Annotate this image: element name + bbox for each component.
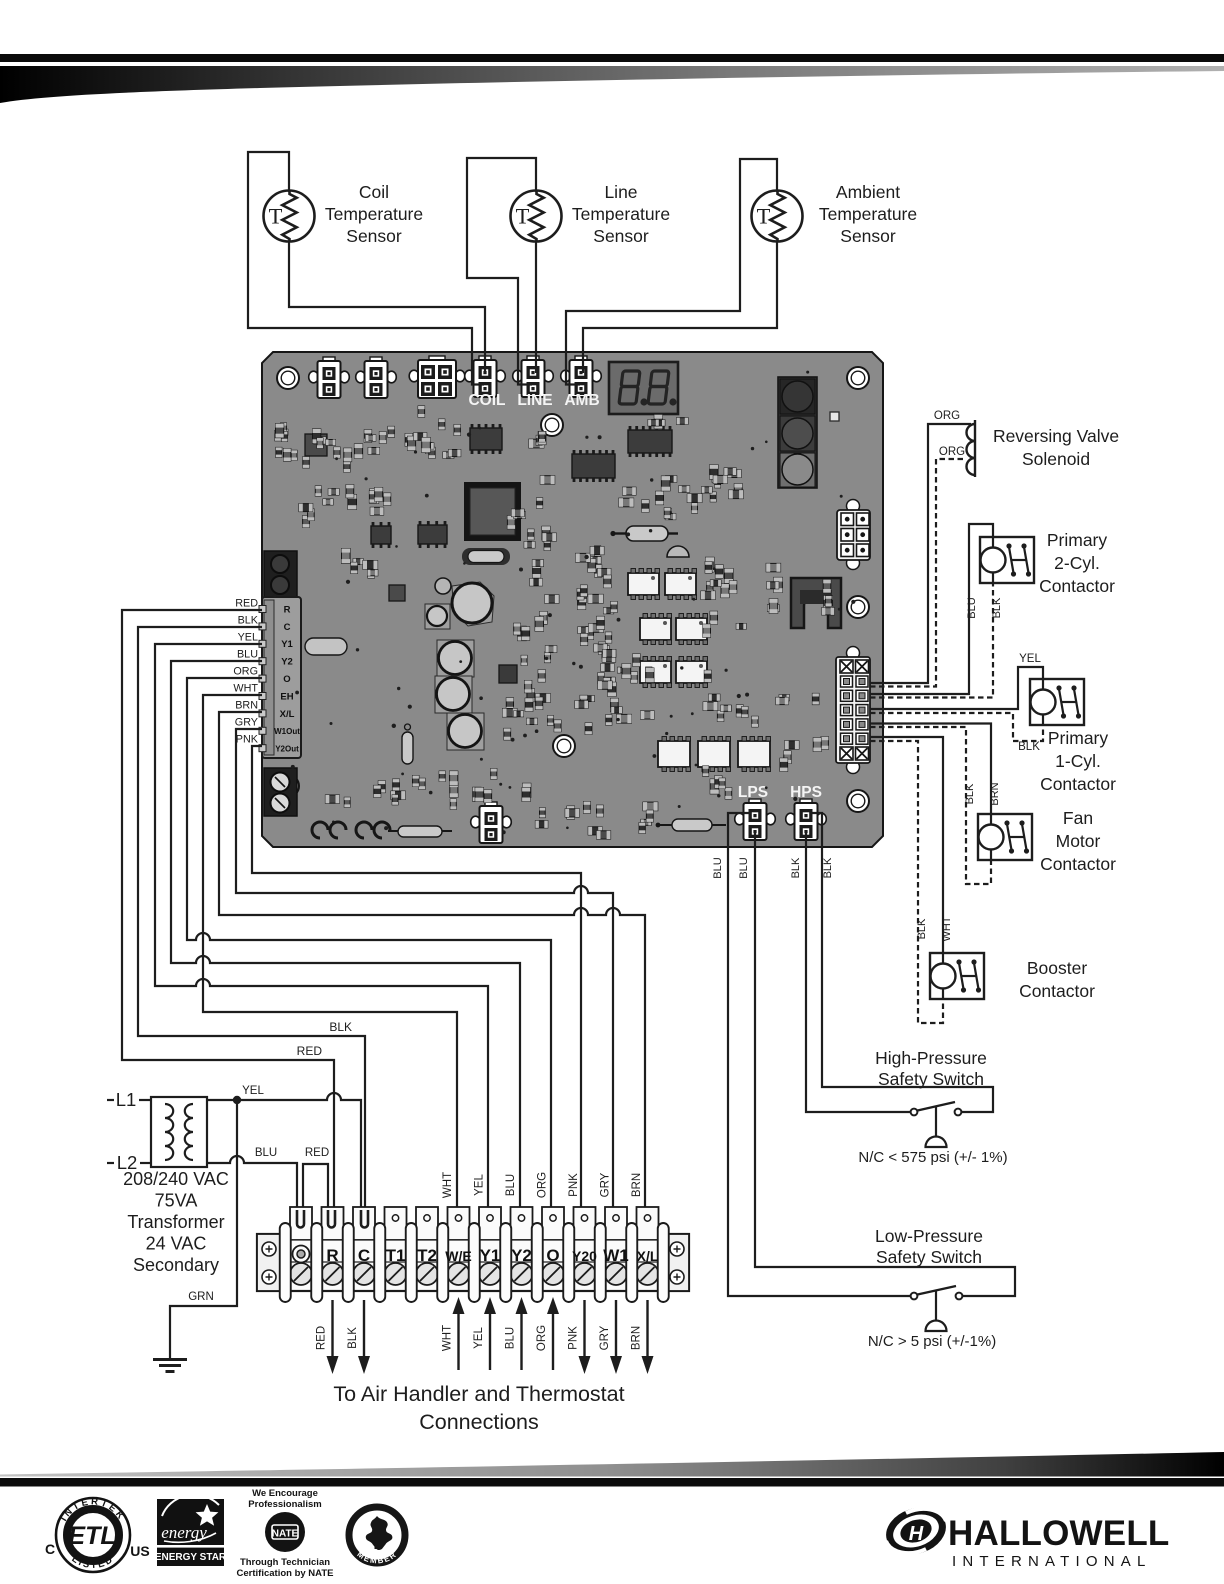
mounting hole 2 bbox=[847, 367, 869, 389]
svg-text:Contactor: Contactor bbox=[1039, 576, 1115, 596]
ground symbol bbox=[153, 1360, 187, 1372]
svg-text:T1: T1 bbox=[386, 1246, 406, 1265]
Hallowell International logo bbox=[884, 1505, 1169, 1570]
svg-text:YEL: YEL bbox=[1019, 653, 1041, 665]
diode D1 axial bbox=[626, 526, 668, 541]
terminal block TB3 bbox=[257, 1207, 689, 1302]
wire BLK HPS top pin bbox=[810, 813, 993, 1112]
svg-text:Through Technician: Through Technician bbox=[240, 1557, 330, 1568]
svg-text:T: T bbox=[269, 204, 283, 229]
svg-text:ORG: ORG bbox=[934, 410, 960, 422]
reversing valve solenoid coil bbox=[967, 420, 976, 477]
mounting hole 7 bbox=[277, 775, 299, 797]
svg-text:LINE: LINE bbox=[517, 392, 552, 409]
svg-text:HALLOWELL: HALLOWELL bbox=[948, 1514, 1169, 1553]
svg-text:Certification by NATE: Certification by NATE bbox=[237, 1568, 334, 1579]
LINE sensor connector bbox=[513, 356, 554, 397]
axial resistor bottom bbox=[398, 826, 442, 837]
wire BLU LPS top pin bbox=[728, 813, 910, 1296]
svg-text:BLU: BLU bbox=[505, 1174, 517, 1196]
svg-text:T: T bbox=[757, 204, 771, 229]
svg-text:PNK: PNK bbox=[568, 1173, 580, 1197]
opto-relay K5 bbox=[640, 657, 672, 688]
svg-text:C: C bbox=[358, 1246, 370, 1265]
line temperature sensor TH2 bbox=[511, 191, 562, 242]
board connector J4 (2x3 socket) bbox=[837, 500, 870, 570]
inductor L1 axial pill bbox=[402, 732, 413, 764]
svg-text:ORG: ORG bbox=[537, 1172, 549, 1198]
IC U8 small bbox=[389, 585, 405, 601]
svg-text:75VA: 75VA bbox=[155, 1191, 198, 1211]
opto-relay K8 bbox=[698, 737, 731, 772]
ETL listed mark bbox=[45, 1496, 150, 1572]
wire GRY from header to terminal block bbox=[236, 729, 613, 1218]
svg-text:High-Pressure: High-Pressure bbox=[875, 1048, 987, 1068]
svg-text:Contactor: Contactor bbox=[1040, 774, 1116, 794]
svg-text:INTERNATIONAL: INTERNATIONAL bbox=[952, 1553, 1152, 1570]
IC U3 bbox=[572, 450, 615, 482]
mounting hole 4 bbox=[847, 596, 869, 618]
svg-text:RED: RED bbox=[316, 1326, 328, 1350]
svg-text:COIL: COIL bbox=[468, 392, 505, 409]
svg-text:Sensor: Sensor bbox=[840, 226, 896, 246]
node A junction 24VAC bbox=[233, 1096, 241, 1104]
svg-text:Secondary: Secondary bbox=[133, 1255, 219, 1275]
svg-text:GRY: GRY bbox=[599, 1325, 611, 1350]
svg-text:Booster: Booster bbox=[1027, 958, 1087, 978]
primary 1-cyl contactor bbox=[1030, 679, 1084, 725]
wire BLK dashed from fan contactor bbox=[870, 727, 991, 884]
wire ORG solid to reversing valve bbox=[870, 424, 971, 683]
svg-text:Y1: Y1 bbox=[480, 1246, 501, 1265]
svg-text:WHT: WHT bbox=[442, 1325, 454, 1351]
wire WHT to air handler bbox=[457, 1312, 459, 1370]
svg-text:Low-Pressure: Low-Pressure bbox=[875, 1226, 983, 1246]
svg-text:Reversing Valve: Reversing Valve bbox=[993, 426, 1119, 446]
svg-text:208/240 VAC: 208/240 VAC bbox=[123, 1169, 229, 1189]
IC U2 bbox=[470, 424, 502, 454]
svg-text:Professionalism: Professionalism bbox=[248, 1499, 321, 1510]
svg-text:BLU: BLU bbox=[255, 1147, 277, 1159]
svg-text:BLU: BLU bbox=[505, 1327, 517, 1349]
svg-text:BLK: BLK bbox=[329, 1020, 352, 1034]
crystal Y1 bbox=[462, 548, 510, 565]
top banner black rule bbox=[0, 54, 1224, 62]
svg-text:C: C bbox=[284, 622, 291, 633]
svg-text:Primary: Primary bbox=[1047, 530, 1108, 550]
svg-text:Fan: Fan bbox=[1063, 808, 1093, 828]
mounting hole 1 bbox=[277, 367, 299, 389]
wire ambient sensor bottom lead to AMB connector pin1 bbox=[583, 241, 777, 373]
svg-text:RED: RED bbox=[305, 1147, 329, 1159]
trimmer RV1 bbox=[435, 578, 451, 594]
svg-text:WHT: WHT bbox=[941, 916, 953, 941]
svg-text:Y1: Y1 bbox=[281, 639, 293, 650]
mounting hole 6 bbox=[847, 790, 869, 812]
NATE certification mark bbox=[237, 1488, 334, 1579]
wire YEL from header to terminal block bbox=[155, 644, 488, 1218]
svg-text:PNK: PNK bbox=[236, 734, 259, 746]
svg-text:ORG: ORG bbox=[536, 1325, 548, 1351]
svg-text:PNK: PNK bbox=[568, 1326, 580, 1350]
wire coil sensor bottom lead to COIL connector pin1 bbox=[289, 241, 485, 373]
svg-text:T2: T2 bbox=[417, 1246, 437, 1265]
bottom banner swoosh bbox=[0, 1452, 1224, 1477]
svg-text:ORG: ORG bbox=[233, 666, 258, 678]
svg-text:To Air Handler and Thermostat: To Air Handler and Thermostat bbox=[333, 1382, 624, 1406]
wire BLU from header to terminal block bbox=[171, 661, 520, 1218]
opto-relay K3 bbox=[640, 614, 672, 645]
7-segment display U20 bbox=[609, 362, 678, 414]
svg-text:WHT: WHT bbox=[442, 1172, 454, 1198]
svg-text:BLU: BLU bbox=[237, 649, 258, 661]
wire ORG from header to terminal block bbox=[187, 678, 551, 1218]
svg-text:H: H bbox=[909, 1523, 924, 1545]
svg-text:Safety Switch: Safety Switch bbox=[878, 1069, 984, 1089]
svg-text:YEL: YEL bbox=[474, 1174, 486, 1196]
svg-text:GRY: GRY bbox=[235, 717, 258, 729]
svg-text:BLU: BLU bbox=[712, 857, 724, 878]
svg-text:BLK: BLK bbox=[1018, 741, 1040, 753]
mounting hole 5 bbox=[553, 735, 575, 757]
svg-text:Primary: Primary bbox=[1048, 728, 1109, 748]
wire BRN solid to fan contactor bbox=[870, 724, 991, 815]
svg-text:BLK: BLK bbox=[991, 597, 1003, 618]
bottom banner black rule bbox=[0, 1478, 1224, 1487]
coil temperature sensor TH1 bbox=[264, 191, 315, 242]
wire BLK HPS bottom pin bbox=[806, 832, 910, 1112]
svg-text:BRN: BRN bbox=[631, 1326, 643, 1350]
wire line sensor bottom lead to LINE connector pin1 bbox=[535, 241, 537, 373]
wire BLU to air handler bbox=[520, 1312, 522, 1370]
wire ORG to air handler bbox=[552, 1312, 554, 1370]
svg-text:C: C bbox=[45, 1541, 55, 1557]
svg-text:Sensor: Sensor bbox=[593, 226, 649, 246]
svg-text:ETL: ETL bbox=[68, 1522, 115, 1550]
wire BLU solid to primary 2-cyl contactor bbox=[870, 524, 993, 694]
svg-text:ORG: ORG bbox=[939, 446, 965, 458]
svg-text:O: O bbox=[546, 1246, 559, 1265]
opto-relay K6 bbox=[676, 657, 708, 688]
wire BRN from header to terminal block bbox=[219, 712, 645, 1218]
svg-text:R: R bbox=[326, 1246, 338, 1265]
svg-text:YEL: YEL bbox=[473, 1327, 485, 1349]
opto-relay K9 bbox=[738, 737, 771, 772]
bottom edge caps bbox=[312, 822, 390, 838]
svg-text:Temperature: Temperature bbox=[819, 204, 917, 224]
svg-text:RED: RED bbox=[235, 598, 258, 610]
svg-text:Connections: Connections bbox=[419, 1410, 539, 1434]
svg-text:W1Out: W1Out bbox=[274, 727, 300, 736]
svg-text:BLK: BLK bbox=[916, 918, 928, 939]
PCB control board bbox=[262, 352, 883, 847]
svg-text:BLK: BLK bbox=[347, 1327, 359, 1349]
electrolytic capacitor C2 bbox=[437, 640, 474, 677]
svg-text:BLK: BLK bbox=[964, 783, 976, 804]
HPS connector bbox=[786, 799, 827, 840]
svg-text:W1: W1 bbox=[603, 1246, 629, 1265]
svg-text:Contactor: Contactor bbox=[1019, 981, 1095, 1001]
wire BLK dashed from primary 2-cyl contactor bbox=[870, 583, 993, 698]
svg-text:R: R bbox=[284, 604, 291, 615]
svg-text:24 VAC: 24 VAC bbox=[146, 1234, 207, 1254]
svg-text:BLK: BLK bbox=[238, 615, 259, 627]
wire BLU into common pocket (U loop) bbox=[297, 1210, 304, 1228]
opto-relay K2 bbox=[665, 569, 697, 600]
wire RED to air handler bbox=[331, 1300, 333, 1358]
screw terminal TB2 lower bbox=[264, 768, 297, 816]
IC U6 bbox=[371, 522, 391, 548]
svg-text:ENERGY STAR: ENERGY STAR bbox=[155, 1552, 227, 1563]
wire line sensor top lead to LINE connector pin2 bbox=[467, 158, 536, 385]
svg-text:Temperature: Temperature bbox=[572, 204, 670, 224]
wire RED jumper to R terminal bbox=[303, 1164, 328, 1230]
wire GRN to ground bbox=[170, 1100, 237, 1358]
ENERGY STAR mark bbox=[155, 1495, 227, 1566]
svg-text:Solenoid: Solenoid bbox=[1022, 449, 1090, 469]
ambient temperature sensor TH3 bbox=[752, 191, 803, 242]
electrolytic capacitor C3 bbox=[435, 676, 472, 713]
booster contactor bbox=[930, 953, 984, 999]
capacitor C5 small round bbox=[425, 604, 450, 629]
fan motor contactor bbox=[978, 814, 1032, 860]
passive component clusters bbox=[273, 371, 856, 839]
board edge connector J5 (wire harness) bbox=[836, 647, 870, 774]
svg-text:BLU: BLU bbox=[738, 857, 750, 878]
svg-text:Transformer: Transformer bbox=[127, 1212, 224, 1232]
screw terminal TB1 upper bbox=[264, 551, 297, 598]
svg-text:Y2Out: Y2Out bbox=[275, 745, 299, 754]
mounting hole 3 bbox=[541, 414, 563, 436]
status LED stack bbox=[778, 377, 817, 488]
wire YEL to air handler bbox=[489, 1312, 491, 1370]
svg-text:L1: L1 bbox=[116, 1089, 137, 1110]
wire ambient sensor top lead to AMB connector pin2 bbox=[566, 159, 777, 385]
wire BRN to air handler bbox=[646, 1300, 648, 1358]
svg-text:X/L: X/L bbox=[280, 709, 295, 720]
svg-text:GRN: GRN bbox=[188, 1291, 214, 1303]
svg-text:BLK: BLK bbox=[822, 857, 834, 878]
LPS connector bbox=[735, 799, 776, 840]
svg-text:N/C > 5 psi (+/-1%): N/C > 5 psi (+/-1%) bbox=[868, 1333, 996, 1350]
svg-text:EH: EH bbox=[280, 691, 293, 702]
diode D2 half-dome bbox=[667, 546, 689, 557]
svg-text:LPS: LPS bbox=[738, 784, 768, 801]
bottom 2-pin connector J6 bbox=[471, 802, 512, 843]
board connector J2 bbox=[356, 357, 397, 398]
field wiring header P1 (R..Y2Out) bbox=[259, 597, 301, 758]
svg-text:Contactor: Contactor bbox=[1040, 854, 1116, 874]
svg-text:W/E: W/E bbox=[445, 1248, 471, 1264]
svg-text:AMB: AMB bbox=[564, 392, 599, 409]
svg-text:Y2: Y2 bbox=[511, 1246, 532, 1265]
svg-text:N/C < 575 psi (+/- 1%): N/C < 575 psi (+/- 1%) bbox=[858, 1149, 1007, 1166]
heatsink bracket bbox=[791, 578, 841, 628]
board connector J3 (2x2) bbox=[409, 356, 465, 398]
primary 2-cyl contactor bbox=[980, 537, 1034, 583]
svg-text:BRN: BRN bbox=[235, 700, 258, 712]
USGBC member mark bbox=[349, 1507, 405, 1566]
svg-text:US: US bbox=[130, 1543, 149, 1559]
wire L1 lead bbox=[107, 1099, 114, 1101]
svg-text:BLU: BLU bbox=[966, 597, 978, 618]
svg-text:Safety Switch: Safety Switch bbox=[876, 1247, 982, 1267]
svg-text:YEL: YEL bbox=[242, 1085, 264, 1097]
svg-text:Sensor: Sensor bbox=[346, 226, 402, 246]
svg-text:T: T bbox=[516, 204, 530, 229]
wire WHT solid to booster contactor bbox=[870, 737, 943, 953]
svg-text:RED: RED bbox=[297, 1044, 323, 1058]
svg-text:WHT: WHT bbox=[233, 683, 258, 695]
svg-text:Line: Line bbox=[604, 182, 637, 202]
svg-text:BRN: BRN bbox=[989, 782, 1001, 805]
wire BLK dashed from booster contactor bbox=[870, 741, 943, 1023]
transformer T1 bbox=[151, 1097, 207, 1167]
svg-text:Motor: Motor bbox=[1056, 831, 1101, 851]
wire GRY to air handler bbox=[615, 1300, 617, 1358]
svg-text:X/L: X/L bbox=[637, 1248, 659, 1264]
IC U5 bbox=[418, 521, 447, 548]
opto-relay K1 bbox=[628, 569, 660, 600]
wire L2 lead bbox=[107, 1162, 114, 1164]
AMB sensor connector bbox=[561, 356, 602, 397]
wire BLK dashed from primary 1-cyl contactor bbox=[870, 713, 1043, 741]
svg-text:1-Cyl.: 1-Cyl. bbox=[1055, 751, 1101, 771]
wire BLU LPS bottom pin bbox=[755, 832, 1015, 1296]
wire BLU transformer to common terminal bbox=[207, 1156, 297, 1230]
svg-text:2-Cyl.: 2-Cyl. bbox=[1054, 553, 1100, 573]
svg-text:Coil: Coil bbox=[359, 182, 389, 202]
board connector J1 bbox=[309, 357, 350, 398]
svg-text:YEL: YEL bbox=[238, 632, 258, 644]
wire BLK to air handler bbox=[363, 1300, 365, 1358]
svg-text:BLK: BLK bbox=[790, 857, 802, 878]
IC U7 small bbox=[305, 434, 327, 456]
opto-relay K7 bbox=[658, 737, 691, 772]
svg-text:Y2: Y2 bbox=[281, 657, 293, 668]
microcontroller U1 bbox=[464, 482, 521, 541]
wire PNK from header to terminal block bbox=[252, 746, 581, 1218]
wire YEL solid to primary 1-cyl contactor bbox=[870, 667, 1043, 709]
resistor pill left bbox=[305, 638, 347, 655]
electrolytic capacitor C1 (large) bbox=[452, 582, 494, 626]
wire RED from header to terminal block bbox=[122, 610, 334, 1230]
svg-text:NATE: NATE bbox=[272, 1529, 299, 1540]
svg-text:Ambient: Ambient bbox=[836, 182, 900, 202]
wire PNK to air handler bbox=[583, 1300, 585, 1358]
opto-relay K4 bbox=[676, 614, 708, 645]
high-pressure safety switch bbox=[911, 1102, 962, 1147]
axial resistor bottom right bbox=[672, 819, 712, 831]
wire YEL transformer to C terminal bbox=[207, 1093, 361, 1230]
svg-text:GRY: GRY bbox=[600, 1172, 612, 1197]
wire ORG dashed to reversing valve bbox=[870, 459, 966, 687]
wire YEL + BLK into C pocket (U loop) bbox=[361, 1210, 368, 1228]
svg-text:O: O bbox=[283, 674, 290, 685]
IC U4 bbox=[628, 426, 672, 457]
svg-text:BRN: BRN bbox=[631, 1173, 643, 1197]
IC U9 small bbox=[499, 665, 517, 683]
svg-text:We Encourage: We Encourage bbox=[252, 1488, 318, 1499]
wire RED cascade + jumper into R pocket (U loop) bbox=[328, 1210, 335, 1228]
wire coil sensor top lead to COIL connector pin2 bbox=[248, 152, 484, 385]
top banner swoosh bbox=[0, 66, 1224, 103]
wire WHT from header to terminal block bbox=[203, 695, 457, 1218]
svg-text:Y20: Y20 bbox=[572, 1248, 597, 1264]
low-pressure safety switch bbox=[911, 1286, 963, 1331]
svg-text:Temperature: Temperature bbox=[325, 204, 423, 224]
wire BLK from header to terminal block bbox=[138, 627, 365, 1230]
COIL sensor connector bbox=[465, 356, 506, 397]
electrolytic capacitor C4 bbox=[447, 713, 484, 750]
